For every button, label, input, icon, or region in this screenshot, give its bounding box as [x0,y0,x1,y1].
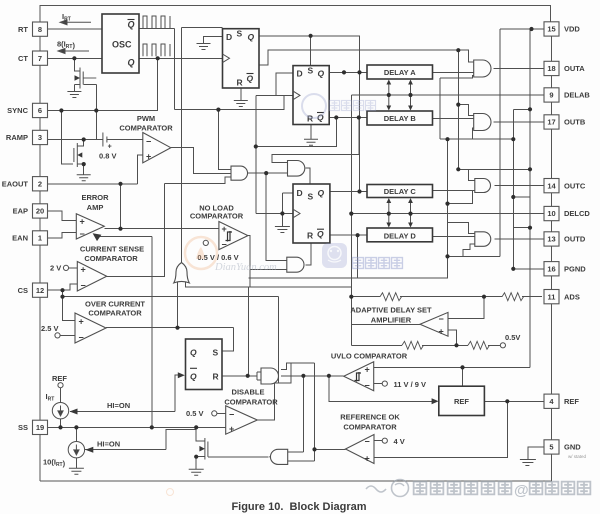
wire CS net long horizontal [63,296,279,298]
svg-text:Q: Q [190,348,197,358]
svg-text:2: 2 [38,179,42,188]
svg-text:Q: Q [247,74,254,84]
DELAY B block [367,111,433,125]
wire error amp output to no-load plus [104,228,219,230]
wire FF3 R stem to AND3 [306,243,312,265]
ic border [40,6,552,482]
svg-text:COMPARATOR: COMPARATOR [224,398,278,407]
OR gate pointing up [174,263,190,283]
pin 14 OUTC [544,179,559,193]
svg-text:16: 16 [547,264,555,273]
svg-text:−: − [229,410,234,420]
wire SS FET drain [196,427,205,440]
flip-flop U2 [293,66,329,125]
no-load 0.5/0.6V terminal [203,240,208,245]
AND gate GD for OUTD [475,232,491,247]
wire FF1 Qbar stepped to gateA top rail [259,50,458,65]
8Irt arrow [58,49,89,54]
svg-text:OVER CURRENT: OVER CURRENT [85,300,145,309]
svg-text:S: S [213,348,219,358]
pin 15 VDD [544,22,559,36]
svg-text:OUTA: OUTA [564,64,585,73]
svg-text:19: 19 [36,423,44,432]
clamp arrow into error amp [93,233,102,241]
UVLO comparator U10 (left pointing) [344,362,374,391]
delay CD arrows [389,200,411,226]
wire src1 to SS [60,419,62,427]
wire gateB out to pin [494,121,545,123]
ground at current source 10Irt [69,468,84,474]
wire src2 stem bottom to gnd [75,458,77,468]
svg-text:OUTC: OUTC [564,181,586,190]
pin 10 DELCD [544,206,559,220]
wire FF3 D gnd vertical [281,193,283,227]
svg-text:HI=ON: HI=ON [97,440,120,449]
svg-text:+: + [80,217,85,227]
wire ADS line left seg [351,296,380,298]
svg-text:Q: Q [248,32,255,42]
FF3 clock triangle [293,209,300,218]
svg-text:OSC: OSC [112,40,132,50]
wire no-load output down [248,236,250,287]
wire REF terminal stem [60,388,62,403]
svg-text:4 V: 4 V [394,437,405,446]
svg-text:7: 7 [38,54,42,63]
wire OR output long vertical [181,28,183,263]
wire clock tap down to AND1 [218,110,231,170]
label texts [80,114,432,432]
wire FF3 Qbar tap down [357,235,359,278]
svg-text:COMPARATOR: COMPARATOR [119,124,173,133]
wire hi-on 1 line [70,411,175,413]
current source 10Irt circle [68,442,84,458]
svg-text:AMP: AMP [87,203,104,212]
svg-text:Q: Q [128,20,135,30]
wire CT FET gate vertical [95,85,97,140]
svg-text:DELCD: DELCD [564,209,590,218]
wire Rgate in2 route [281,363,315,370]
wire refok out [315,448,346,450]
AND gate AND2 [288,161,305,177]
svg-text:6: 6 [38,106,42,115]
2.5V terminal [55,333,60,338]
svg-text:DELAB: DELAB [564,91,590,100]
wire CT FET drain/source [74,58,80,71]
wire ramp FET gate from SYNC [61,111,72,165]
wire FF3 clock line [256,213,293,215]
wire UVLO plus sense line [374,366,530,368]
wire REF out to pin4 [484,400,544,402]
resistor R2 on ADS line [502,293,523,301]
svg-text:D: D [226,32,232,42]
wire gateC out to pin [495,185,544,187]
ground at FF1 D [197,44,211,50]
wire CS clamp arrow line [99,236,152,238]
svg-text:−: − [79,333,84,343]
svg-text:CURRENT SENSE: CURRENT SENSE [80,245,144,254]
wire FF2 Qbar to DELAY B [329,117,367,119]
wire uvlo down to ref arrow [329,376,433,402]
SS mosfet Q3 [205,438,208,460]
ground at ramp mosfet [77,175,91,181]
svg-text:−: − [81,281,86,291]
DELAY A block [367,65,433,79]
wire crosslink y139.2 [440,138,514,140]
wire delay-set vertical [350,95,352,345]
FF1 labels [226,29,255,88]
delay AB arrows [389,82,411,109]
pin 18 OUTA [544,61,559,75]
disable 0.5V terminal [212,411,217,416]
svg-text:8(IRT): 8(IRT) [57,40,75,51]
svg-text:w/ stated: w/ stated [568,454,587,459]
svg-text:2.5 V: 2.5 V [41,324,59,333]
wire gateD bottom feed [463,244,475,256]
wire disable out [257,383,291,420]
wire RAMP line with battery to PWM minus [48,139,103,141]
2V terminal [63,265,68,270]
wire gateA bottom feed [440,76,474,79]
svg-text:−: − [365,437,370,447]
wire gateB bottom feed [473,128,474,139]
wire UVLO minus terminal [374,383,383,385]
svg-text:20: 20 [36,207,44,216]
wire gateC top step [458,169,475,180]
wire latch R line [222,375,257,377]
pin 20 EAP [33,204,48,218]
ground at FF1 R [234,101,248,107]
current sense comparator U7 [77,262,106,292]
svg-text:EAN: EAN [12,234,28,243]
pin 3 RAMP [33,130,48,144]
svg-text:8: 8 [38,25,42,34]
ramp mosfet Q2 [74,143,77,167]
svg-text:EAOUT: EAOUT [2,179,29,188]
wire latch S feed [222,350,233,352]
svg-text:13: 13 [547,235,555,244]
pin 2 EAOUT [33,177,48,191]
battery 0.8V plates [103,133,107,147]
wire gate2 out to FET gate [208,456,269,458]
svg-text:PWM: PWM [137,114,155,123]
pin 7 CT [33,51,48,65]
wire RT pin to OSC [48,28,103,30]
svg-text:CS: CS [18,286,28,295]
reference OK comparator U12 (left pointing) [346,435,375,464]
wire gateC bottom feed [448,190,475,203]
wire CS net down right side [278,297,291,384]
adaptive delay set amplifier U11 (left pointing) [420,312,448,336]
DELAY D block [367,228,433,242]
svg-text:AMPLIFIER: AMPLIFIER [371,316,412,325]
svg-text:DISABLE: DISABLE [232,388,265,397]
FF3 labels [297,188,325,241]
svg-text:0.8 V: 0.8 V [99,152,117,161]
wire y287 extension to delay-set vertical [248,286,351,288]
svg-text:REF: REF [454,397,469,406]
wire 2.5V terminal [60,334,75,336]
wire CS net vertical [63,290,76,321]
svg-text:GND: GND [564,443,581,452]
wire refok net vertical [314,363,316,461]
svg-text:S: S [308,66,314,76]
wire OC to latch S [222,328,233,351]
SR latch labels [190,348,219,382]
SR latch block [186,339,223,390]
wire FF3 Qbar to DELAY D [330,234,367,236]
svg-text:R: R [237,78,243,88]
svg-text:OUTB: OUTB [564,118,586,127]
svg-text:REF: REF [52,374,67,383]
svg-text:IRT: IRT [46,392,55,403]
svg-text:+: + [365,454,370,464]
CT mosfet arrow [75,75,81,81]
arrowhead at gate2 tip [269,454,275,459]
svg-text:+: + [146,152,151,162]
wire FF2 clock feed horiz [256,94,284,96]
wire FF2 Qbar tap to AND2 feed [272,118,359,163]
pin 4 REF [544,394,559,408]
OSC block [102,14,139,73]
svg-text:−: − [146,137,151,147]
svg-text:0.5V: 0.5V [505,333,520,342]
no-load comparator U6 [219,222,248,250]
svg-text:DELAY A: DELAY A [384,68,416,77]
error amp U5 [76,214,104,239]
svg-text:ERROR: ERROR [81,193,109,202]
wire OR left input [177,281,179,328]
svg-text:5: 5 [549,443,553,452]
svg-text:HI=ON: HI=ON [107,401,130,410]
svg-text:RAMP: RAMP [6,133,28,142]
AND gate GC for OUTC [475,179,491,193]
svg-text:11: 11 [548,292,556,301]
svg-text:DELAY C: DELAY C [384,187,417,196]
svg-text:+: + [222,224,227,234]
wire ADS tap to amp minus [448,297,484,319]
wire DELCD line [351,213,544,215]
hi-on arrow 2 head [85,447,93,453]
wire gateA out to pin [494,68,545,70]
CT mosfet Q1 [80,68,83,89]
wire gateA top step [458,50,473,62]
UVLO 11V/9V terminal [382,381,387,386]
wire DELAB line [351,94,543,96]
wire SYNC line [48,58,158,110]
wire FF2 D feedback vertical [255,95,257,213]
AND gate AND3 [287,257,304,272]
FF2 clock triangle [293,91,300,100]
ground at CT mosfet [67,92,81,98]
watermarks [214,243,402,273]
flip-flop U1 [223,29,260,88]
wire 2V terminal [69,267,78,269]
svg-text:ADS: ADS [564,292,580,301]
svg-text:S: S [237,29,243,39]
svg-text:−: − [439,314,444,324]
svg-text:−: − [365,381,370,391]
svg-text:SS: SS [18,423,28,432]
wire crosslink x439.8 [439,78,441,139]
svg-text:DianYuan.com: DianYuan.com [214,262,277,273]
wire GND pin lead [528,447,544,460]
current source Irt circle [52,403,68,419]
svg-text:Figure 10. Block Diagram: Figure 10. Block Diagram [231,501,366,513]
svg-text:EAP: EAP [13,207,28,216]
wire OR right input jog [186,281,249,287]
resistor R1 on ADS line [380,293,401,301]
wire Qbar vertical down [173,28,175,109]
svg-text:REFERENCE OK: REFERENCE OK [340,413,400,422]
wire ramp FET drain [77,140,83,147]
wire rung y109.3 [513,108,530,110]
REF terminal circle [58,383,63,388]
pin 19 SS [33,420,48,434]
svg-text:VDD: VDD [564,25,580,34]
wire FF3 Q to DELAY C [330,191,367,193]
wire riser to PWM plus [138,155,143,184]
AND gate G2 mirrored [270,449,287,464]
wire VDD pin line [500,28,544,30]
REF block input arrow [432,398,439,404]
svg-text:Q: Q [128,58,135,68]
wire amp plus to 0.5V line [448,330,457,345]
wire FF2 Q to DELAY A [329,71,367,73]
DELAY labels [384,68,417,240]
svg-text:+: + [108,144,112,151]
Irt arrow top [60,20,91,25]
svg-text:UVLO COMPARATOR: UVLO COMPARATOR [331,352,408,361]
disable comparator U9 [226,406,258,434]
wire gate2 in2 [288,460,315,462]
ramp mosfet arrow [77,152,82,157]
svg-text:Q: Q [190,371,197,381]
hi-on arrow 1 head [70,409,78,415]
AND gate GA for OUTA [474,60,491,77]
svg-text:D: D [297,69,303,79]
wire EAP jog [48,211,77,220]
wire disable 0.5V lead [217,412,226,414]
DELAY C block [367,185,433,198]
oscillator pulse glyph Qbar [143,16,170,28]
wire DELAY C out [433,190,475,192]
wire AND1 lower feed [165,177,231,183]
ground at FF3 D [275,227,290,233]
wire PWM comparator output to AND1 [171,148,231,174]
svg-text:DELAY D: DELAY D [384,231,417,240]
wire FF3 D lead [282,192,293,194]
pin 16 PGND [544,262,559,276]
ground at FF2 [304,139,318,145]
wire OSC Q output to FF1 clock [139,57,223,59]
wire hi-on 2 line [85,449,166,451]
wire EAN jog [48,233,77,238]
wire gateB top step [458,105,473,116]
wire REF tap down to refok plus [374,401,507,457]
over current comparator U8 [75,313,106,343]
wire OC comp output [106,327,233,329]
wire VDD rail x500 [499,29,501,256]
wire clamp vertical to SS [151,237,153,428]
svg-text:COMPARATOR: COMPARATOR [190,212,244,221]
wire sense tap to REF top [462,367,464,386]
svg-text:S: S [308,191,314,201]
pin 6 SYNC [33,103,48,117]
svg-text:CT: CT [18,54,28,63]
pin 17 OUTB [544,115,559,129]
svg-text:Q: Q [318,188,325,198]
wire crosslink x447.5 [447,139,449,256]
wire no-load net to latch R [247,287,249,376]
svg-text:D: D [297,188,303,198]
pin 8 RT [33,22,48,36]
svg-text:11 V / 9 V: 11 V / 9 V [394,380,427,389]
wire FF1 Q output to delay feed vertical [259,36,360,192]
wire Rgate output to UVLO tip [281,375,344,377]
wire rung y197 [513,196,530,198]
AND gate R-gate [261,368,279,384]
ground at GND pin [520,460,536,466]
wire AND1 output to AND2 [248,172,288,174]
hysteresis glyph no-load [226,231,233,242]
wire latch R fork [256,372,258,380]
svg-text:PGND: PGND [564,264,586,273]
wire SS FET source to gnd [196,457,205,470]
wire latchnet down [302,376,304,452]
svg-text:Q: Q [318,69,325,79]
wire refok minus terminal [374,440,382,442]
wire CT pin to OSC [48,57,103,59]
svg-text:18: 18 [547,64,555,73]
wire FF1 R ground stem [240,88,242,101]
svg-text:R: R [307,231,313,241]
wire OR output to FF1 corner [182,27,223,29]
svg-text:OUTD: OUTD [564,235,586,244]
resistor R4 on 0.5V line [468,341,489,349]
FF2 labels [297,66,325,124]
svg-text:+: + [79,317,84,327]
wire ramp FET source to gnd [77,164,83,175]
wire DELAY B out [433,117,474,119]
pin 12 CS [33,283,48,297]
svg-text:Q: Q [317,229,324,239]
svg-text:10(IRT): 10(IRT) [43,458,66,469]
AND gate GB for OUTB [474,114,491,131]
wire OSC Qbar output to pulse glyph run [139,27,174,29]
SS mosfet arrow [199,446,205,452]
wire gate2 in1 [288,451,304,453]
junction dots [72,56,76,60]
wire amp output [351,323,420,325]
svg-text:+: + [81,265,86,275]
wire SS pin line [48,426,226,428]
svg-text:+: + [365,365,370,375]
pin 5 GND [544,440,559,454]
wire rung y227.7 [513,227,530,229]
FF1 clock triangle [223,54,230,63]
wire clock bus horizontal y109.6 to FF2 clock jog [174,95,293,109]
svg-text:2 V: 2 V [50,264,61,273]
wire PGND line [513,268,544,270]
ground at SS mosfet [189,469,204,475]
wire EAOUT pin line [48,183,138,185]
wire DELAY A out [433,71,474,73]
pin 1 EAN [33,231,48,245]
adaptive 0.5V terminal [500,343,505,348]
wire gateD out to pin [495,238,544,240]
svg-text:+: + [229,424,234,434]
wire AND3 lower input [250,269,287,271]
